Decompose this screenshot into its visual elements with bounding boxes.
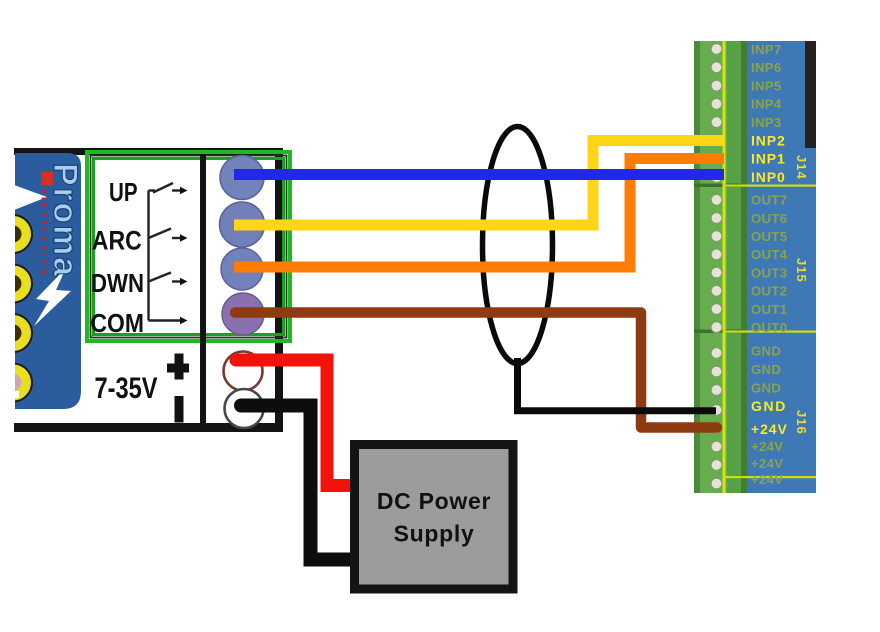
svg-text:DWN: DWN: [91, 268, 144, 298]
svg-text:OUT2: OUT2: [751, 284, 787, 299]
wire UP (blue) T1 to INP0: [234, 169, 724, 180]
screw terminals J14 block: [711, 44, 722, 183]
silk line J14/J15: [723, 185, 816, 187]
svg-text:ARC: ARC: [92, 226, 142, 256]
power terminal - ring: [225, 389, 264, 428]
pin labels OUT7-OUT0 (unused): [751, 193, 788, 335]
wire COM (brown) T4 to +24V: [235, 313, 717, 428]
tick mark: [15, 391, 19, 398]
silk line J16 bottom: [723, 476, 816, 478]
svg-text:INP4: INP4: [751, 97, 782, 112]
shield drain wire to GND: [518, 358, 717, 411]
Proma front panel (blue): [15, 153, 81, 409]
white wedge graphic: [14, 185, 47, 210]
label COM: [91, 308, 145, 338]
svg-text:OUT0: OUT0: [751, 320, 787, 335]
svg-text:OUT3: OUT3: [751, 265, 787, 280]
panel connector ring K4: [0, 364, 32, 402]
svg-text:J15: J15: [794, 258, 809, 283]
connector label J15: [794, 258, 809, 283]
pin labels +24V (unused): [751, 439, 783, 487]
pin labels INP7-INP3 (unused): [751, 42, 782, 130]
svg-text:J16: J16: [794, 410, 809, 435]
svg-text:7-35V: 7-35V: [95, 372, 158, 405]
wire +V (red) to DC supply: [236, 360, 354, 486]
switch S3 DWN contact: [149, 273, 188, 286]
terminal strip (green): [694, 41, 747, 493]
screw terminals J15 block: [711, 194, 722, 332]
svg-text:Supply: Supply: [394, 521, 475, 547]
panel connector ring K2: [0, 265, 32, 303]
green highlight box inner: [91, 156, 287, 338]
pin label INP0: [751, 169, 786, 185]
svg-text:+24V: +24V: [751, 439, 783, 454]
silk line J15/J16: [723, 331, 816, 333]
svg-text:+24V: +24V: [751, 421, 788, 437]
power terminal + ring: [224, 352, 263, 391]
green highlight box (signal terminals) outer: [87, 152, 290, 341]
switch common bus: [147, 191, 149, 321]
svg-text:OUT5: OUT5: [751, 229, 787, 244]
THC controller module U1 (Proma) body: [14, 148, 283, 432]
terminal T4 COM: [222, 293, 264, 335]
DC power supply PS1: [355, 445, 514, 590]
panel connector ring K3: [0, 314, 32, 352]
screw terminals J16 block: [711, 348, 722, 490]
panel connector ring K1: [0, 185, 71, 402]
label ARC: [92, 226, 142, 256]
terminal strip block gaps: [694, 184, 741, 334]
label DWN: [91, 268, 144, 298]
terminal block separator: [200, 154, 206, 425]
connector label J16: [794, 410, 809, 435]
terminal T1 UP: [220, 156, 264, 200]
pin label +24V: [751, 421, 788, 437]
svg-text:OUT7: OUT7: [751, 193, 787, 208]
wire -V (black) to DC supply: [241, 406, 354, 560]
plus symbol: [167, 354, 189, 380]
switch S1 UP contact: [149, 183, 188, 194]
svg-text:INP2: INP2: [751, 132, 786, 148]
COM common lead: [149, 317, 188, 325]
svg-text:GND: GND: [751, 380, 781, 395]
svg-text:+24V: +24V: [751, 456, 783, 471]
breakout board PCB: [741, 41, 816, 493]
lightning bolt graphic: [34, 268, 71, 326]
svg-text:J14: J14: [794, 155, 809, 180]
svg-text:INP6: INP6: [751, 60, 782, 75]
svg-text:elektronika: elektronika: [39, 188, 50, 278]
svg-text:OUT1: OUT1: [751, 302, 787, 317]
svg-text:INP7: INP7: [751, 42, 782, 57]
label UP: [109, 177, 138, 207]
terminal T3 DWN: [221, 248, 263, 290]
svg-text:GND: GND: [751, 398, 787, 414]
svg-text:DC Power: DC Power: [377, 488, 491, 514]
silk line vertical: [723, 41, 726, 493]
wire ARC (yellow) T2 to INP2: [234, 141, 724, 226]
minus symbol: [175, 396, 184, 423]
svg-text:+24V: +24V: [751, 472, 783, 487]
svg-text:INP1: INP1: [751, 151, 786, 167]
pin labels GND (unused): [751, 343, 781, 395]
svg-text:INP3: INP3: [751, 115, 782, 130]
wire DWN (orange) T3 to INP1: [234, 159, 724, 268]
pin label GND (shield): [751, 398, 787, 414]
svg-text:INP0: INP0: [751, 169, 786, 185]
svg-text:OUT6: OUT6: [751, 211, 787, 226]
svg-text:INP5: INP5: [751, 78, 782, 93]
pin label INP1: [751, 151, 786, 167]
label 7-35V: [95, 372, 158, 405]
switch S2 ARC contact: [149, 229, 188, 242]
PCB component (black bar): [805, 41, 816, 148]
Proma logo text: [46, 163, 84, 278]
svg-text:GND: GND: [751, 362, 781, 377]
svg-text:OUT4: OUT4: [751, 247, 788, 262]
terminal T2 ARC: [220, 202, 265, 247]
svg-text:GND: GND: [751, 343, 781, 358]
connector label J14: [794, 155, 809, 180]
pin label INP2: [751, 132, 786, 148]
svg-text:UP: UP: [109, 177, 138, 207]
svg-text:COM: COM: [91, 308, 145, 338]
cable shield loop: [483, 127, 553, 364]
elektronika logo text: [39, 172, 54, 278]
